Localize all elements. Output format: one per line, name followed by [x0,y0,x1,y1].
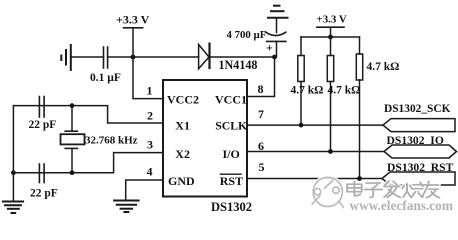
svg-text:1N4148: 1N4148 [219,58,258,72]
svg-text:4: 4 [147,164,153,178]
node rail junction [328,35,333,40]
ground G4 under pin 4 [114,201,139,213]
svg-text:SCLK: SCLK [215,119,247,132]
capacitor C4 22pF bottom [39,164,44,183]
wire pin 7 SCLK [247,124,383,126]
svg-text:I/O: I/O [223,147,240,161]
node crystal bottom junction [70,170,75,175]
svg-text:6: 6 [258,139,264,153]
svg-text:4.7 kΩ: 4.7 kΩ [367,61,400,73]
wire pin 4 GND [126,180,163,200]
svg-text:22 pF: 22 pF [30,188,58,200]
node R2-IO junction [328,149,333,154]
svg-text:4 700 µF: 4 700 µF [227,29,267,41]
capacitor C2 4700uF electrolytic [266,18,286,57]
ground G1 sideways left of C1 [61,45,71,70]
svg-text:VCC1: VCC1 [215,92,247,106]
svg-text:VCC2: VCC2 [167,92,199,106]
svg-text:DS1302: DS1302 [211,200,252,214]
port flag DS1302_RST [382,172,455,185]
op IC U1 DS1302 box [163,80,247,197]
resistor R1 4.7k [298,56,304,82]
svg-text:7: 7 [258,107,264,121]
wire diode cathode to node [210,56,275,58]
crystal Y1 32.768kHz [61,106,85,173]
watermark chinese text dianzi fashaoyou [347,181,439,198]
wire left rail [12,106,14,201]
svg-text:2: 2 [147,109,153,123]
wire R2 to IO [330,82,332,152]
svg-text:8: 8 [258,82,264,96]
node R1-SCLK junction [299,123,304,128]
svg-text:1: 1 [147,84,153,98]
watermark logo magnifier [312,177,440,208]
svg-text:4.7 kΩ: 4.7 kΩ [291,85,324,97]
svg-text:www.elecfans.com: www.elecfans.com [350,198,453,213]
wire C1 to diode anode [108,56,199,58]
capacitor C3 22pF top [39,97,44,118]
svg-text:DS1302_IO: DS1302_IO [387,134,444,147]
svg-text:3: 3 [147,138,153,152]
svg-text:+3.3 V: +3.3 V [317,14,347,26]
svg-text:+3.3 V: +3.3 V [116,13,150,27]
power +3.3V left [124,28,143,57]
svg-text:5: 5 [259,160,265,174]
node R3-RST junction [357,176,362,181]
port flag DS1302_IO [384,145,457,158]
node crystal top junction [70,103,75,108]
wire rail drop R2 [330,37,332,56]
wire rail drop R3 [359,37,361,54]
wire rail drop R1 [300,37,302,56]
svg-text:4.7 kΩ: 4.7 kΩ [328,85,361,97]
diode D1 1N4148 [199,44,210,69]
port flag DS1302_SCK [383,119,455,132]
ground G3 bottom left [3,202,23,214]
resistor R2 4.7k [327,56,333,82]
svg-text:X2: X2 [175,147,190,161]
svg-text:X1: X1 [175,118,190,132]
resistor R3 4.7k [356,54,362,80]
svg-text:GND: GND [168,174,195,188]
wire R3 to RST [359,80,361,179]
node X2-rail junction [11,170,16,175]
capacitor C1 0.1uF [104,47,108,68]
wire X1 net [13,106,163,123]
wire pin 6 IO [247,151,384,153]
wire G1 to C1 [71,56,104,58]
svg-text:RST: RST [220,174,243,188]
svg-text:DS1302_SCK: DS1302_SCK [384,103,451,115]
svg-text:32.768 kHz: 32.768 kHz [85,135,138,147]
ground G2 inverted top [268,6,288,18]
wire X2 net [13,153,163,173]
pin name RST overline [220,173,242,175]
node junction below +3.3V [131,55,136,60]
node junction at C2 bottom [272,55,277,60]
wire pin 8 VCC1 [247,57,275,97]
wire pin 1 VCC2 [133,57,164,99]
svg-text:0.1 µF: 0.1 µF [90,72,121,84]
svg-text:22 pF: 22 pF [29,119,57,131]
svg-text:+: + [266,41,273,55]
wire R1 to SCLK [300,82,302,126]
wire resistor rail [301,36,360,38]
wire pin 5 RST [247,178,382,180]
power +3.3V right [317,27,344,37]
svg-text:DS1302_RST: DS1302_RST [387,161,454,174]
